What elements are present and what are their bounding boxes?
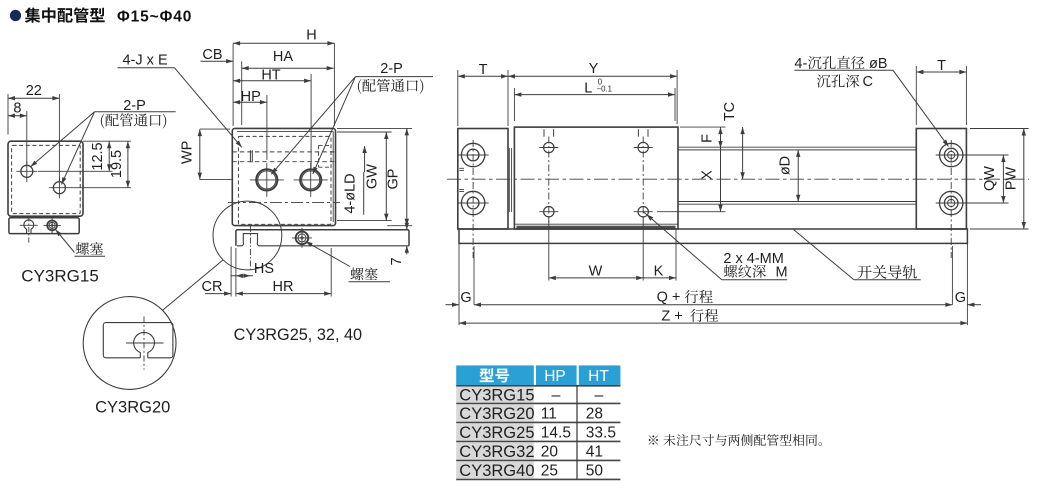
svg-text:GP: GP: [386, 169, 402, 190]
svg-text:28: 28: [586, 406, 603, 423]
svg-text:22: 22: [26, 83, 42, 99]
svg-text:HT: HT: [588, 368, 609, 385]
svg-text:4-J x E: 4-J x E: [123, 53, 168, 69]
svg-text:QW: QW: [982, 166, 998, 191]
svg-text:øB: øB: [869, 56, 888, 72]
svg-text:F: F: [700, 134, 716, 143]
svg-text:7: 7: [389, 257, 405, 265]
svg-text:HS: HS: [254, 261, 274, 277]
svg-text:X: X: [700, 170, 716, 180]
svg-text:50: 50: [586, 463, 604, 480]
svg-text:W: W: [589, 263, 603, 279]
svg-text:19.5: 19.5: [109, 150, 125, 178]
svg-text:4-øLD: 4-øLD: [343, 173, 359, 213]
svg-text:M: M: [776, 264, 788, 280]
svg-text:G: G: [955, 290, 966, 306]
svg-text:K: K: [654, 263, 664, 279]
svg-text:HP: HP: [544, 368, 566, 385]
svg-text:12.5: 12.5: [90, 142, 106, 170]
svg-text:14.5: 14.5: [541, 425, 571, 442]
svg-text:–: –: [552, 387, 561, 404]
svg-text:C: C: [863, 74, 873, 90]
svg-text:CY3RG40: CY3RG40: [459, 462, 534, 480]
svg-text:H: H: [306, 28, 316, 44]
svg-text:PW: PW: [1004, 167, 1020, 191]
svg-text:GW: GW: [365, 164, 381, 189]
svg-text:CY3RG20: CY3RG20: [459, 405, 534, 423]
svg-text:TC: TC: [722, 102, 738, 121]
svg-text:T: T: [937, 58, 946, 74]
svg-text:41: 41: [586, 444, 603, 461]
svg-text:2-P: 2-P: [380, 61, 403, 77]
svg-text:CY3RG32: CY3RG32: [459, 443, 534, 461]
svg-text:20: 20: [541, 444, 559, 461]
svg-text:CR: CR: [202, 279, 223, 295]
svg-text:25: 25: [541, 463, 558, 480]
svg-text:Y: Y: [589, 61, 599, 77]
svg-text:−0.1: −0.1: [597, 84, 612, 93]
svg-text:33.5: 33.5: [586, 425, 616, 442]
svg-text:Q +: Q +: [657, 290, 681, 306]
svg-text:–: –: [595, 387, 604, 404]
svg-text:CY3RG25: CY3RG25: [459, 424, 534, 442]
svg-text:CY3RG20: CY3RG20: [95, 399, 170, 417]
svg-text:CY3RG25, 32, 40: CY3RG25, 32, 40: [234, 326, 363, 344]
svg-text:Z +: Z +: [661, 308, 682, 324]
svg-text:HR: HR: [273, 279, 294, 295]
svg-text:11: 11: [541, 406, 557, 423]
svg-text:8: 8: [13, 101, 21, 117]
svg-text:G: G: [460, 290, 471, 306]
svg-text:HT: HT: [261, 68, 280, 84]
svg-text:CY3RG15: CY3RG15: [459, 387, 534, 405]
svg-text:CY3RG15: CY3RG15: [21, 267, 98, 286]
svg-text:L: L: [584, 81, 592, 97]
svg-text:T: T: [479, 62, 488, 78]
svg-text:øD: øD: [778, 156, 794, 175]
svg-text:Φ15~Φ40: Φ15~Φ40: [117, 9, 192, 26]
svg-text:4-: 4-: [794, 56, 807, 72]
svg-text:HA: HA: [273, 49, 293, 65]
svg-text:WP: WP: [180, 141, 196, 164]
svg-text:HP: HP: [241, 89, 261, 105]
